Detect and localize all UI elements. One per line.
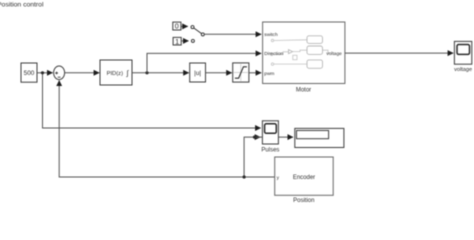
Motor inner preview: gain triangle bbox=[289, 50, 293, 54]
wire: 1 to switch bbox=[181, 40, 188, 42]
wire: tap to Display bbox=[255, 136, 294, 138]
svg-text:|u|: |u| bbox=[194, 70, 201, 77]
voltage scope bbox=[454, 41, 471, 64]
Pulses scope bbox=[262, 121, 278, 144]
svg-text:switch: switch bbox=[264, 32, 278, 38]
Motor inner preview: wire 4 bbox=[274, 63, 307, 65]
manual switch bbox=[191, 26, 194, 29]
wire: branch up from lower feedback to Pulses input 2 bbox=[244, 137, 260, 177]
wire: 500 to sum bbox=[37, 72, 53, 74]
junction A dot bbox=[41, 71, 44, 74]
Motor inner preview: wire 1 bbox=[274, 39, 307, 42]
constant block 0 bbox=[173, 22, 181, 30]
svg-text:Encoder: Encoder bbox=[293, 175, 315, 181]
Motor inner preview: circle p2 bbox=[271, 53, 273, 55]
sum block bbox=[54, 66, 65, 80]
wire: feedback upper (junction A down to Pulses input 1) bbox=[43, 74, 261, 129]
svg-text:pwm: pwm bbox=[264, 72, 274, 77]
svg-text:PID(z): PID(z) bbox=[107, 71, 123, 77]
Display block bbox=[295, 128, 344, 147]
junction dot (lower feedback branch) bbox=[243, 175, 246, 178]
Motor inner preview: circle p1 bbox=[271, 39, 273, 41]
svg-text:500: 500 bbox=[24, 70, 35, 77]
Motor inner preview: circle p3 bbox=[271, 63, 273, 65]
Motor inner preview: rounded block 2 bbox=[307, 46, 323, 54]
wire: branch PID output up to Motor Direction input bbox=[147, 53, 261, 72]
constant block 500 bbox=[21, 63, 37, 82]
Motor inner preview: rounded block 3 bbox=[307, 60, 323, 68]
Motor inner preview: rounded block 1 bbox=[307, 36, 323, 44]
svg-text:1: 1 bbox=[175, 37, 179, 46]
junction dot (display tap) bbox=[253, 136, 256, 139]
svg-text:voltage: voltage bbox=[454, 67, 472, 73]
wire: saturation to Motor pwm bbox=[249, 72, 261, 74]
svg-text:Pulses: Pulses bbox=[261, 148, 279, 154]
svg-text:Direction: Direction bbox=[264, 51, 283, 57]
svg-text:voltage: voltage bbox=[326, 51, 342, 57]
constant block 1 bbox=[173, 37, 181, 45]
wire: 0 to switch bbox=[181, 25, 188, 27]
svg-text:0: 0 bbox=[175, 22, 179, 31]
Motor inner preview: wire 2 bbox=[273, 52, 288, 55]
Motor inner preview: small block bbox=[293, 55, 297, 59]
wire: sum to PID bbox=[65, 72, 100, 74]
wire: abs to saturation bbox=[206, 72, 232, 74]
saturation block bbox=[233, 63, 249, 82]
Encoder subsystem bbox=[275, 157, 334, 195]
svg-text:Motor: Motor bbox=[296, 88, 311, 94]
PID(z) controller block bbox=[100, 60, 132, 85]
Motor inner preview: wire 5 bbox=[323, 50, 331, 53]
Motor subsystem bbox=[263, 22, 345, 84]
wire: Motor voltage to scope bbox=[345, 52, 453, 54]
abs block |u| bbox=[190, 63, 206, 82]
wire: feedback lower (Encoder y output to sum minus input) bbox=[59, 81, 275, 178]
svg-text:Position: Position bbox=[293, 198, 314, 204]
Motor inner preview: wire 3 bbox=[293, 50, 307, 51]
svg-text:Position control: Position control bbox=[0, 1, 44, 8]
junction dot (PID output) bbox=[145, 71, 148, 74]
wire: switch to Motor switch input bbox=[204, 33, 261, 35]
wire: PID to abs bbox=[132, 72, 189, 74]
